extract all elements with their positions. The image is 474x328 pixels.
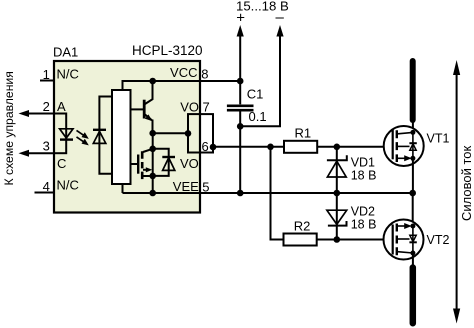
svg-text:Силовой ток: Силовой ток xyxy=(459,145,474,221)
light arrows xyxy=(77,130,89,145)
svg-text:N/C: N/C xyxy=(57,67,79,82)
svg-text:К схеме управления: К схеме управления xyxy=(2,71,16,185)
svg-text:N/C: N/C xyxy=(57,177,79,192)
photodiode xyxy=(93,130,106,144)
transistor Q-high (NPN) base lead xyxy=(131,108,144,110)
power current double arrow xyxy=(453,60,460,324)
node drain junction xyxy=(149,146,156,153)
pins 7-6 tie loop xyxy=(188,114,213,152)
node minus-C1 junction xyxy=(237,123,244,130)
VEE external rail xyxy=(200,192,413,194)
VEE internal rail xyxy=(123,184,200,193)
svg-text:18 В: 18 В xyxy=(351,218,377,232)
transistor VT2 (MOSFET) xyxy=(384,220,424,260)
node source junction xyxy=(149,173,156,180)
pin 2 wire with arrow to control xyxy=(19,110,55,117)
svg-text:4: 4 xyxy=(43,179,50,194)
transistor VT1 (MOSFET) xyxy=(384,126,424,166)
wire output to pins 7-6 loop xyxy=(153,132,188,134)
svg-text:VEE: VEE xyxy=(173,179,199,194)
svg-text:A: A xyxy=(57,99,66,114)
photodiode branch xyxy=(99,97,112,174)
svg-text:VCC: VCC xyxy=(170,65,197,80)
svg-text:HCPL-3120: HCPL-3120 xyxy=(132,43,203,58)
wire VT1 source down xyxy=(412,158,414,193)
node VEE junction xyxy=(149,190,156,197)
wire output down xyxy=(152,133,154,149)
node C1-VEE junction xyxy=(237,190,244,197)
power bus bottom thick segment xyxy=(410,268,417,324)
svg-text:R2: R2 xyxy=(294,219,311,234)
pin 3 wire with arrow to control xyxy=(19,150,55,157)
svg-text:1: 1 xyxy=(43,67,50,82)
node VD1-VD2 junction xyxy=(334,190,341,197)
svg-text:8: 8 xyxy=(201,66,208,81)
pin 4 lead xyxy=(35,192,55,194)
wire to VT2 source xyxy=(412,193,414,226)
transistor Q-high (NPN) xyxy=(144,81,152,133)
wire branch down to R2 xyxy=(271,147,284,240)
node output junction xyxy=(149,130,156,137)
pin6 output wire xyxy=(213,146,284,148)
transistor Q-low (MOSFET) gate lead xyxy=(131,163,138,165)
wire R2 to VT2 gate xyxy=(317,239,393,241)
node R1-R2 branch junction xyxy=(267,144,274,151)
node pin6 output junction xyxy=(210,144,217,151)
capacitor C1 xyxy=(227,81,254,193)
svg-text:+: + xyxy=(236,10,245,27)
node VD1 top junction xyxy=(334,144,341,151)
svg-text:VT1: VT1 xyxy=(427,131,450,145)
body diode loop xyxy=(153,149,169,176)
node mid bus junction xyxy=(409,190,416,197)
node loop-left junction xyxy=(185,130,192,137)
svg-text:–: – xyxy=(276,9,285,26)
diode VO internal xyxy=(162,157,175,170)
resistor R1 xyxy=(284,141,317,153)
VCC internal rail xyxy=(123,81,241,90)
svg-text:R1: R1 xyxy=(295,125,312,140)
zener VD1 xyxy=(327,147,347,193)
svg-text:DA1: DA1 xyxy=(53,45,78,60)
wire R1 to VT1 gate xyxy=(317,146,392,148)
transistor Q-low (MOSFET) xyxy=(138,149,153,179)
wire bus to VT1 drain xyxy=(412,120,414,132)
pin 1 lead xyxy=(40,80,54,82)
node VD2-R2 junction xyxy=(334,236,341,243)
svg-text:3: 3 xyxy=(43,139,50,154)
wire source down to VEE xyxy=(152,149,154,193)
minus arrow wire xyxy=(240,25,283,126)
svg-text:2: 2 xyxy=(43,99,50,114)
zener VD2 xyxy=(327,193,347,240)
power bus top thick segment xyxy=(410,61,416,120)
svg-text:VT2: VT2 xyxy=(427,233,450,247)
plus arrow wire xyxy=(237,25,244,81)
svg-text:C: C xyxy=(57,156,66,171)
svg-text:C1: C1 xyxy=(247,87,264,102)
op-amp U1 : IC body DA1 HCPL-3120 xyxy=(54,61,200,213)
svg-text:VD2: VD2 xyxy=(351,205,375,219)
node VCC-collector junction xyxy=(149,78,156,85)
LED input box (pins 2-3) xyxy=(54,114,66,154)
wire VT2 drain down xyxy=(412,253,414,267)
svg-text:VD1: VD1 xyxy=(351,155,375,169)
svg-text:VO: VO xyxy=(180,100,199,115)
amplifier block xyxy=(112,90,131,184)
svg-text:7: 7 xyxy=(203,100,210,115)
svg-text:18 В: 18 В xyxy=(351,168,377,182)
svg-text:VO: VO xyxy=(180,156,199,171)
node VCC-C1 junction xyxy=(237,78,244,85)
svg-text:0.1: 0.1 xyxy=(249,109,267,124)
resistor R2 xyxy=(284,234,317,246)
LED of optocoupler xyxy=(60,129,73,140)
